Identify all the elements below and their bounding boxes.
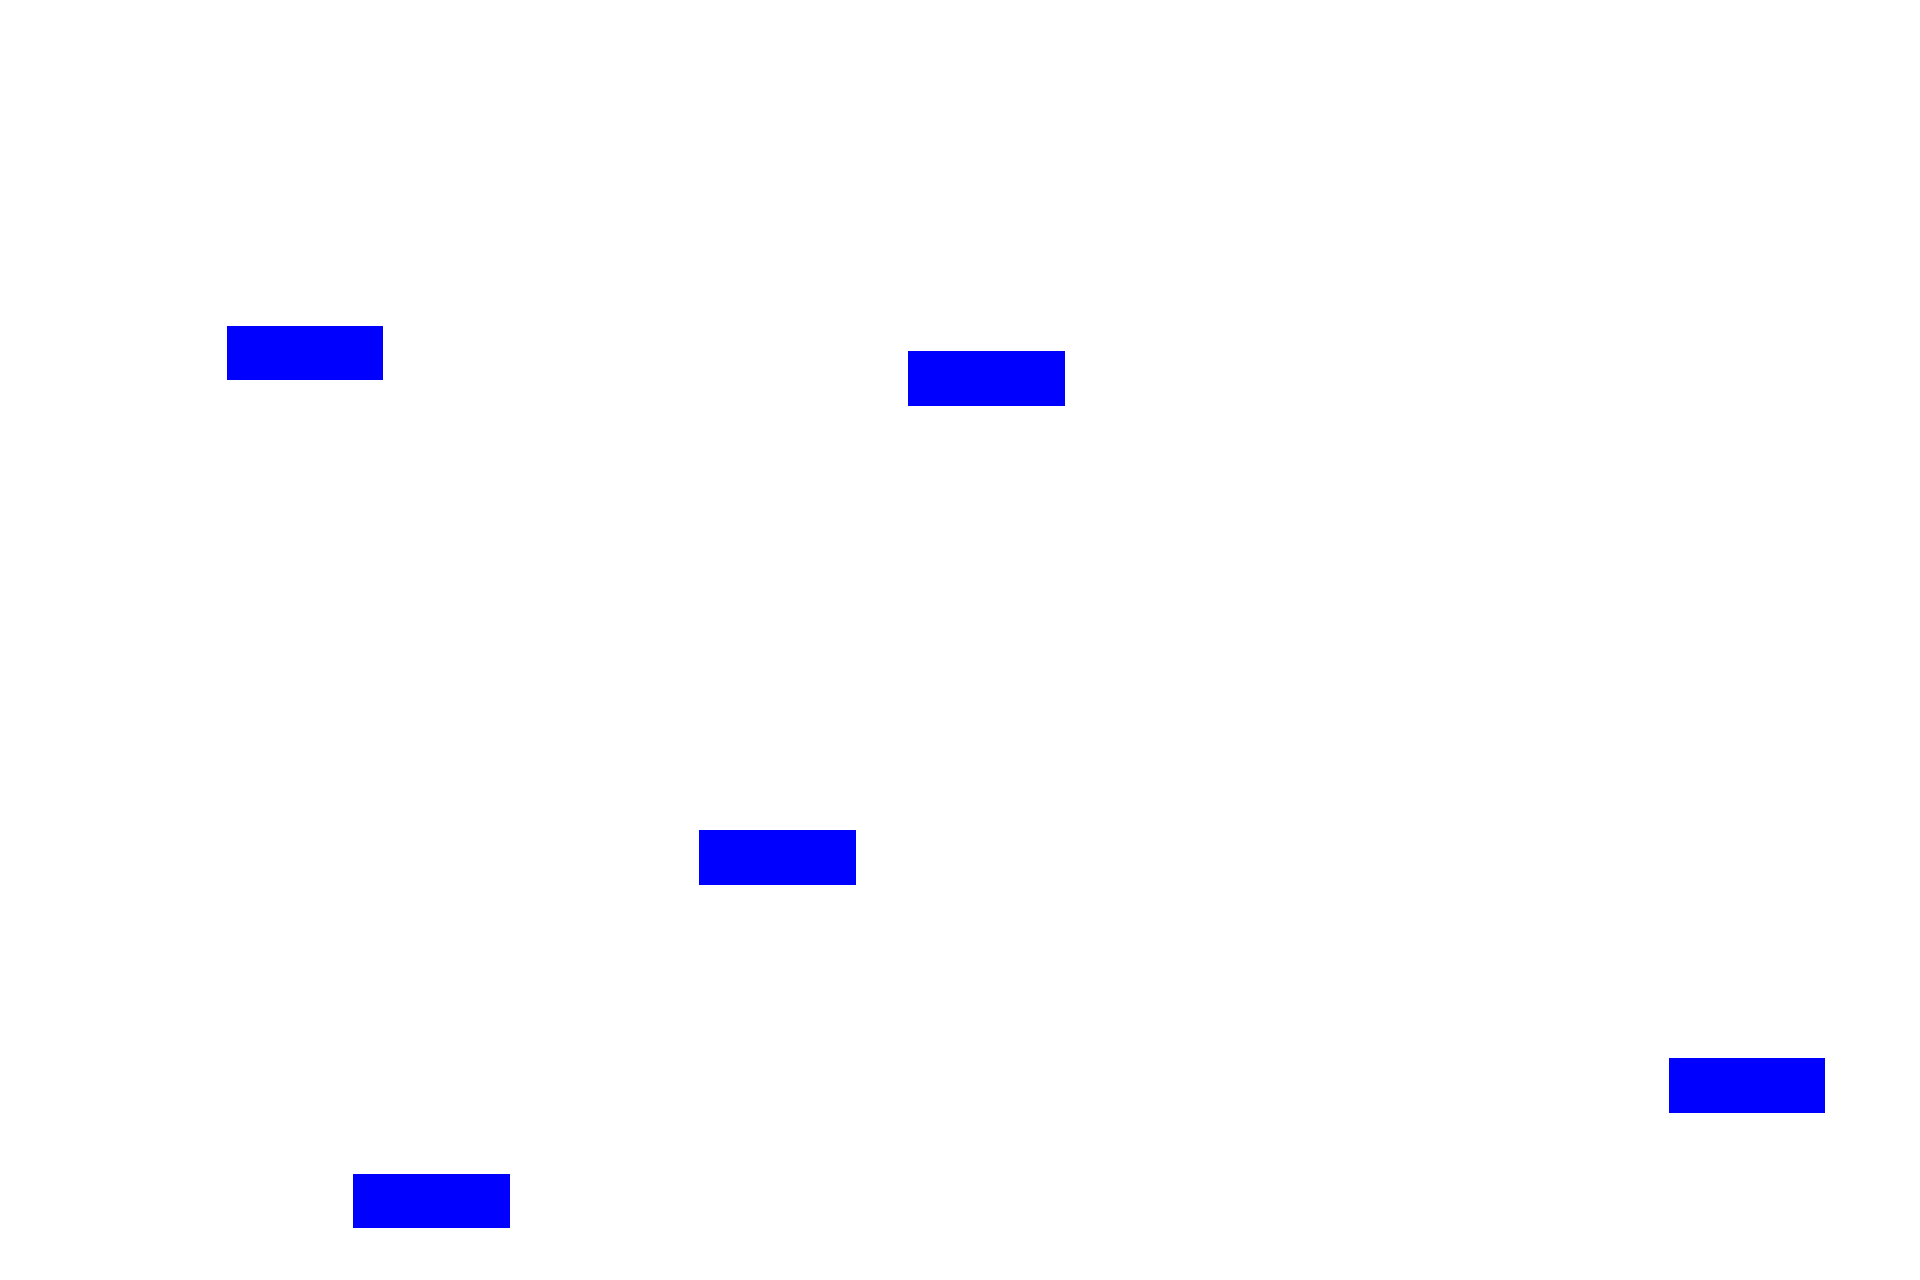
blue box 3 bbox=[699, 830, 856, 885]
blue box 4 bbox=[1669, 1058, 1825, 1113]
blue box 5 bbox=[353, 1174, 510, 1228]
blue box 2 bbox=[908, 351, 1065, 406]
blue box 1 bbox=[227, 326, 383, 380]
